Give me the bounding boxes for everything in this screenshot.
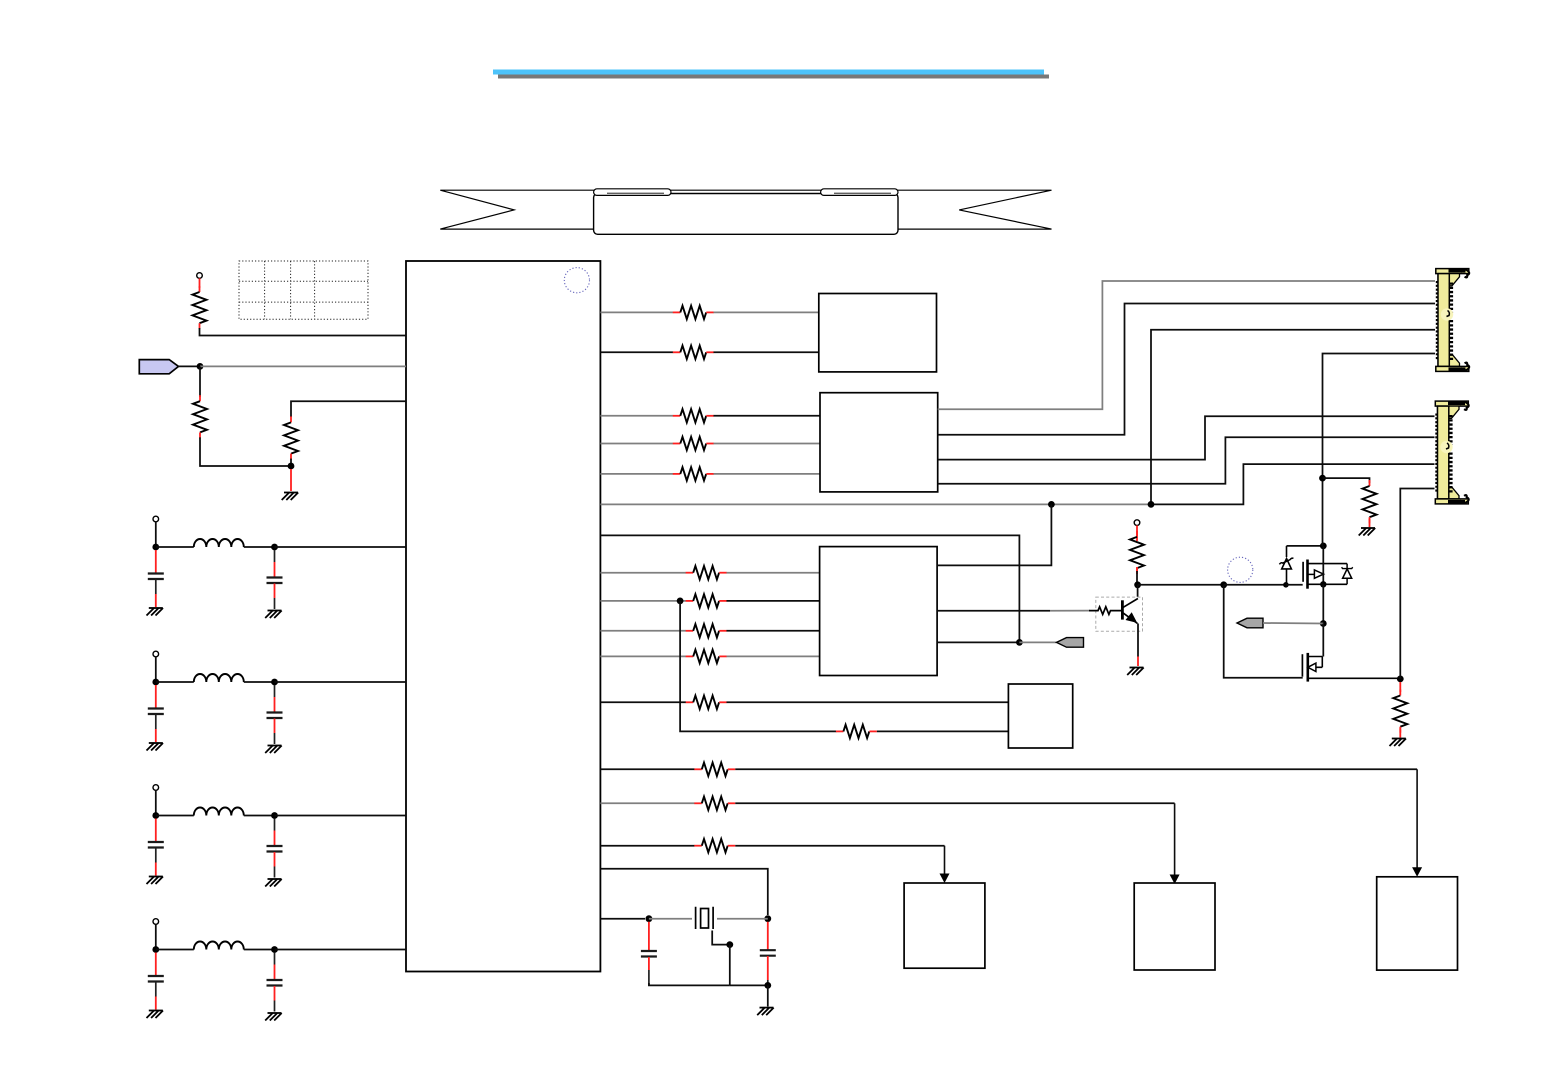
wire R6 to box bbox=[714, 415, 821, 417]
capacitor C4 bbox=[267, 713, 283, 719]
wire node E to M2 drain bbox=[1322, 624, 1324, 657]
capacitor C1 bbox=[148, 574, 164, 580]
resistor R20 bbox=[1393, 690, 1407, 733]
wire stub bbox=[274, 867, 276, 878]
wire U1 to R16 bbox=[600, 802, 694, 804]
ground bbox=[265, 746, 282, 754]
ground bbox=[147, 877, 164, 885]
wire bbox=[244, 546, 275, 548]
resistor R8 bbox=[673, 467, 714, 480]
crystal X1 bbox=[696, 907, 714, 929]
wire filter 1 to U1 bbox=[275, 546, 407, 548]
junction filter 1 input bbox=[152, 544, 159, 551]
junction gate node G bbox=[1220, 581, 1227, 588]
capacitor C9 bbox=[641, 951, 657, 957]
junction filter 3 input bbox=[152, 812, 159, 819]
wire bbox=[155, 924, 157, 949]
junction Q1 collector node bbox=[1134, 581, 1141, 588]
wire U1 to R4 bbox=[600, 311, 673, 313]
wire to pulldown R19 bbox=[1323, 478, 1370, 483]
resistor R11 bbox=[686, 624, 727, 637]
input net flag bbox=[139, 360, 178, 374]
ground bbox=[265, 879, 282, 887]
red stub bbox=[274, 965, 276, 980]
sub-circuit block D bbox=[1008, 684, 1072, 748]
red stub bbox=[274, 986, 276, 1001]
resistor R2 bbox=[193, 395, 207, 438]
wire bbox=[156, 681, 194, 683]
resistor R7 bbox=[673, 437, 714, 450]
wire bbox=[244, 949, 275, 951]
red stub bbox=[155, 953, 157, 976]
sub-circuit block C bbox=[820, 547, 938, 676]
capacitor C10 bbox=[760, 950, 776, 956]
resistor R15 bbox=[694, 763, 735, 776]
wire U1 to R5 bbox=[600, 351, 673, 353]
terminal of filter 2 bbox=[153, 651, 159, 657]
resistor R14 bbox=[836, 725, 877, 738]
resistor R10 bbox=[686, 594, 727, 607]
wire U1 to R3 bbox=[291, 401, 406, 417]
capacitor C8 bbox=[267, 980, 283, 986]
banner right roll bbox=[821, 189, 898, 196]
wire stub bbox=[648, 970, 650, 985]
inductor L2 bbox=[194, 674, 244, 682]
resistor R9 bbox=[686, 566, 727, 579]
red stub bbox=[648, 957, 650, 970]
terminal of filter 1 bbox=[153, 516, 159, 522]
red stub bbox=[1136, 567, 1138, 572]
wire U1 to R13 bbox=[600, 701, 686, 703]
terminal Q1 collector pullup bbox=[1134, 520, 1140, 526]
junction filter 3 output bbox=[271, 812, 278, 819]
resistor R4 bbox=[673, 306, 714, 319]
red stub bbox=[1399, 682, 1401, 692]
ground bbox=[757, 1008, 774, 1016]
resistor R18 bbox=[1130, 531, 1144, 574]
resistor R3 bbox=[284, 416, 298, 459]
wire U1 XOUT bbox=[600, 869, 767, 915]
wire collector bbox=[1137, 585, 1139, 597]
ground bbox=[265, 1013, 282, 1021]
MOSFET M2 (N-channel low-side) bbox=[1302, 653, 1400, 682]
junction case bbox=[726, 941, 733, 948]
sub-circuit block B bbox=[820, 393, 938, 492]
wire block C out3 to node D bbox=[937, 641, 1019, 643]
wire zener to rail bbox=[1287, 545, 1323, 547]
red stub bbox=[1137, 657, 1139, 667]
net arrow label 2 (points left) bbox=[1237, 618, 1263, 628]
junction rail/ground bbox=[764, 982, 771, 989]
wire branch down to R14 bbox=[680, 601, 836, 732]
sub-circuit block E bbox=[904, 883, 985, 968]
junction rail / pulldown bbox=[1319, 475, 1326, 482]
red stub bbox=[767, 956, 769, 980]
terminal of filter 3 bbox=[153, 785, 159, 791]
sub-circuit block A bbox=[819, 294, 937, 372]
wire bbox=[156, 949, 194, 951]
junction filter 4 input bbox=[152, 946, 159, 953]
terminal of filter 4 bbox=[153, 919, 159, 925]
connector CN1 bbox=[1436, 268, 1469, 372]
wire stub bbox=[274, 598, 276, 609]
resistor R6 bbox=[673, 409, 714, 422]
wire filter 2 to U1 bbox=[275, 681, 407, 683]
wire bbox=[156, 546, 194, 548]
wire emitter bbox=[1137, 624, 1139, 657]
wire to ground bbox=[767, 985, 769, 1006]
capacitor C2 bbox=[267, 578, 283, 584]
wire stub bbox=[274, 550, 276, 562]
junction gray net / riser bbox=[1148, 501, 1155, 508]
wire U1 to R6 bbox=[600, 415, 673, 417]
wire CN1 pin4 rail down bbox=[1323, 354, 1436, 546]
wire U1 to node D bbox=[600, 535, 1019, 642]
wire stub bbox=[274, 1001, 276, 1012]
wire node E to net arrow bbox=[1263, 622, 1323, 625]
red stub bbox=[767, 922, 769, 950]
inductor L3 bbox=[194, 808, 244, 816]
inductor L1 bbox=[194, 539, 244, 547]
junction node IN bbox=[197, 363, 204, 370]
wire U1 to R17 bbox=[600, 845, 694, 847]
wire U1 to R9 bbox=[600, 572, 686, 574]
capacitor C6 bbox=[267, 846, 283, 852]
title underline shadow bbox=[498, 75, 1049, 79]
wire R7 to box bbox=[714, 443, 821, 445]
ground bbox=[265, 611, 282, 619]
red stub bbox=[155, 594, 157, 607]
wire bbox=[155, 657, 157, 682]
wire R4 to box bbox=[714, 311, 819, 313]
ground bbox=[1359, 528, 1376, 536]
net arrow label 1 (points left) bbox=[1057, 638, 1084, 648]
banner ribbon band bbox=[440, 190, 1051, 229]
capacitor C3 bbox=[148, 709, 164, 715]
wire R11 to box bbox=[727, 630, 820, 632]
wire to Q1 base resistor bbox=[1050, 610, 1090, 612]
wire block B out2 to CN1 pin2 bbox=[938, 304, 1435, 435]
wire U1 to R12 bbox=[600, 655, 686, 657]
wire filter 4 to U1 bbox=[275, 949, 407, 951]
red stub bbox=[199, 278, 201, 288]
wire collector node to gate node bbox=[1138, 584, 1224, 586]
red stub bbox=[274, 584, 276, 599]
wire bbox=[155, 790, 157, 815]
wire gray net riser to CN1 pin3 bbox=[1151, 330, 1435, 505]
wire case to ground rail bbox=[729, 945, 731, 986]
wire U1 gray net bbox=[600, 503, 1151, 505]
wire gate node to M2 gate bbox=[1224, 585, 1303, 678]
wire R17 to block E bbox=[735, 845, 944, 847]
wire M1 vertical rail bbox=[1322, 546, 1324, 584]
red stub bbox=[274, 562, 276, 577]
wire R16 to block F bbox=[735, 802, 1174, 804]
IC U1 body bbox=[406, 261, 600, 972]
junction filter 4 output bbox=[271, 946, 278, 953]
ground bbox=[147, 608, 164, 616]
ground bbox=[147, 1011, 164, 1019]
red stub bbox=[274, 719, 276, 734]
wire R8 to box bbox=[714, 473, 821, 475]
red stub bbox=[1369, 519, 1371, 527]
wire gray net to CN2 pin3 bbox=[1151, 464, 1435, 504]
wire node to U1 (gray) bbox=[200, 365, 406, 367]
wire block C out2 to Q1 base bbox=[937, 610, 1050, 612]
wire R15 to block G bbox=[735, 768, 1417, 770]
wire arrow into block F bbox=[1170, 803, 1180, 884]
red stub bbox=[1136, 525, 1138, 541]
sub-circuit block F bbox=[1134, 883, 1215, 970]
wire stub bbox=[155, 848, 157, 863]
wire U1 to R11 bbox=[600, 630, 686, 632]
wire block B out4 to CN2 pin2 bbox=[938, 437, 1435, 484]
junction XIN node bbox=[646, 915, 653, 922]
red stub bbox=[155, 997, 157, 1010]
wire stub bbox=[155, 580, 157, 595]
wire U1 to R10 bbox=[600, 600, 686, 602]
junction gray net / block C out1 bbox=[1048, 501, 1055, 508]
inductor L4 bbox=[194, 942, 244, 950]
wire bbox=[290, 459, 292, 463]
wire block C out1 to gray net bbox=[937, 504, 1051, 565]
wire R14 to box D bbox=[877, 730, 1009, 732]
junction R2/R3 bbox=[288, 463, 295, 470]
transistor Q1 (digital transistor, dashed outline) bbox=[1089, 597, 1143, 631]
connector CN2 bbox=[1435, 401, 1468, 505]
wire bbox=[156, 815, 194, 817]
resistor R19 bbox=[1363, 480, 1377, 523]
resistor R5 bbox=[673, 346, 714, 359]
wire U1 to R7 bbox=[600, 443, 673, 445]
dotted revision table bbox=[239, 261, 368, 319]
junction M2 source node bbox=[1397, 676, 1404, 683]
red stub bbox=[1399, 729, 1401, 738]
banner left roll bbox=[594, 189, 671, 196]
wire bbox=[244, 815, 275, 817]
wire crystal case bbox=[712, 931, 730, 945]
wire U1 to R15 bbox=[600, 768, 694, 770]
wire to crystal bbox=[649, 918, 692, 920]
wire stub bbox=[274, 819, 276, 831]
wire C9 to rail bbox=[649, 983, 730, 985]
wire stub bbox=[767, 980, 769, 985]
wire node D to net arrow bbox=[1019, 641, 1056, 643]
sub-circuit block G bbox=[1377, 877, 1458, 970]
wire bbox=[1136, 571, 1138, 585]
wire M2 source to CN2 pin4 bbox=[1400, 489, 1434, 679]
title underline blue bar bbox=[493, 70, 1044, 75]
resistor R1 bbox=[193, 286, 207, 329]
wire rail bbox=[730, 984, 768, 986]
ground bbox=[147, 743, 164, 751]
wire R5 to box bbox=[714, 351, 819, 353]
red stub bbox=[155, 819, 157, 842]
red stub bbox=[155, 685, 157, 708]
wire flag to node bbox=[179, 365, 201, 367]
red stub bbox=[155, 550, 157, 573]
wire U1 to R8 bbox=[600, 473, 673, 475]
wire R9 to box bbox=[727, 572, 820, 574]
wire bbox=[199, 366, 201, 397]
wire stub bbox=[274, 953, 276, 965]
junction XOUT node bbox=[764, 915, 771, 922]
capacitor C7 bbox=[148, 976, 164, 982]
junction row10 branch bbox=[677, 598, 684, 605]
red stub bbox=[274, 697, 276, 712]
wire stub bbox=[155, 982, 157, 997]
capacitor C5 bbox=[148, 842, 164, 848]
red stub bbox=[274, 852, 276, 867]
wire arrow into block G bbox=[1412, 769, 1422, 877]
wire R10 to box bbox=[727, 600, 820, 602]
wire block B out1 to CN1 pin1 bbox=[938, 281, 1435, 409]
wire bbox=[244, 681, 275, 683]
zener diode D1 bbox=[1279, 546, 1293, 584]
ground bbox=[1127, 668, 1144, 676]
junction filter 2 input bbox=[152, 679, 159, 686]
red stub bbox=[274, 831, 276, 846]
IC U1 pin-1 indicator circle bbox=[564, 268, 589, 293]
MOSFET M1 (P-channel high-side) bbox=[1303, 560, 1353, 589]
wire R12 to box bbox=[727, 655, 820, 657]
junction M1 drain bbox=[1320, 581, 1326, 587]
wire filter 3 to U1 bbox=[275, 815, 407, 817]
junction filter 2 output bbox=[271, 679, 278, 686]
red stub bbox=[155, 729, 157, 742]
resistor R17 bbox=[694, 839, 735, 852]
wire R13 to box D bbox=[727, 701, 1009, 703]
banner scroll center bbox=[594, 194, 898, 235]
wire arrow into block E bbox=[940, 846, 950, 883]
wire stub bbox=[274, 733, 276, 744]
red stub bbox=[155, 863, 157, 876]
wire crystal to node bbox=[717, 918, 768, 920]
junction zener/rail bbox=[1320, 543, 1327, 550]
wire R2 bottom bbox=[200, 437, 291, 466]
wire M1 drain down bbox=[1322, 584, 1324, 623]
resistor R12 bbox=[686, 650, 727, 663]
junction zener anode bbox=[1283, 582, 1289, 588]
junction node D bbox=[1016, 639, 1023, 646]
wire gate node to zener/M1 gate bbox=[1224, 584, 1286, 586]
annotation circle bbox=[1228, 557, 1253, 582]
resistor R13 bbox=[686, 696, 727, 709]
red stub bbox=[648, 922, 650, 951]
ground bbox=[282, 493, 299, 501]
wire stub bbox=[274, 685, 276, 697]
wire block B out3 to CN2 pin1 bbox=[938, 416, 1435, 459]
junction node E bbox=[1320, 620, 1327, 627]
wire U1 XIN bbox=[600, 918, 645, 920]
wire bbox=[155, 522, 157, 547]
junction filter 1 output bbox=[271, 544, 278, 551]
wire to M1 gate bbox=[1286, 584, 1303, 586]
ground bbox=[1390, 739, 1407, 747]
resistor R16 bbox=[694, 797, 735, 810]
wire R1 to U1 bbox=[200, 328, 407, 336]
terminal of R1 bbox=[197, 273, 203, 279]
wire stub bbox=[155, 715, 157, 730]
wire red stub to ground bbox=[290, 469, 292, 491]
